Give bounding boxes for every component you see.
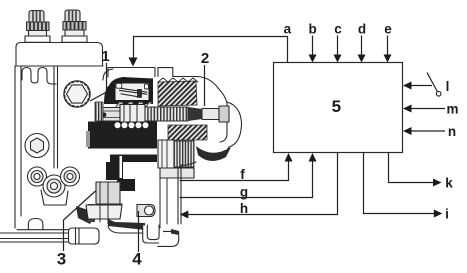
white cutouts in core [86,122,149,178]
svg-text:f: f [240,167,245,182]
arrow a (down, at pump) [129,58,138,67]
bottom arch bump [28,219,43,230]
bearing circle A [28,167,47,186]
wire l [409,85,432,87]
svg-text:2: 2 [201,50,209,67]
right bottom foot [158,231,179,246]
shaft assembly [98,105,229,124]
svg-text:m: m [446,102,458,117]
svg-text:n: n [448,124,456,139]
arrow n [403,127,412,135]
hex plug left [25,134,49,158]
svg-text:1: 1 [101,48,109,65]
svg-text:g: g [240,185,248,200]
wire e [387,36,389,56]
coil hatched top [158,81,197,106]
rear housing outline [178,162,196,224]
bearing circle B [43,175,65,197]
governor cover top [108,68,173,78]
svg-text:h: h [240,201,248,216]
wire f [180,160,289,181]
mid vertical flange lines [54,66,58,168]
label 4 [132,211,142,269]
label 1 [90,48,110,101]
plunger spring striped cylinder [174,141,194,167]
wire d [361,36,363,56]
arrow g (up, into box) [309,153,317,162]
svg-text:4: 4 [132,250,142,269]
svg-text:3: 3 [57,250,66,269]
letter labels [240,22,459,222]
svg-text:5: 5 [332,97,341,116]
fuel pipes bottom left [0,228,99,244]
hex plug nut on face [64,81,90,107]
delivery-valve fitting 2 [62,10,87,42]
U mounting channel [143,225,164,243]
arrowheads [129,55,443,219]
wire b [312,36,314,56]
arrow b [309,55,317,63]
wire a: box to pump [134,37,288,63]
label 2 [201,50,209,106]
drive parts dark blobs lower-middle [76,206,94,224]
zigzag spring washers above coil [158,78,198,82]
plunger barrel right of core [158,140,174,168]
delivery-valve fitting 1 [25,11,50,43]
arrow k (right) [433,179,442,187]
ECU box 5 [274,63,403,153]
solenoid black core mass [88,122,157,149]
arrow d [358,55,366,63]
valve body below [160,168,194,178]
switch contact circle (l) [436,92,441,97]
inner mechanism: governor black housing [104,77,153,107]
wire c [337,36,339,56]
svg-text:e: e [384,22,392,37]
arrow h (left, at pump) [180,211,189,219]
svg-text:b: b [308,22,316,37]
wire k [389,153,435,183]
shim tab row [116,102,153,107]
wire h [187,153,338,215]
bracket under bearings [41,190,68,205]
bulge bottom dark crescent [196,146,231,161]
svg-text:c: c [334,22,342,37]
svg-text:l: l [446,79,450,94]
pump body: face arches [22,68,56,85]
svg-text:i: i [445,207,449,222]
svg-text:d: d [358,22,366,37]
wire m [409,108,445,110]
arrow f (up, into box) [285,153,293,162]
lower dark band and bottom outline [108,219,145,230]
pipe fitting block [69,228,100,244]
screw part (label 4 target) [137,205,155,217]
wire n [409,130,445,132]
wire i [364,153,436,214]
svg-text:a: a [284,22,292,37]
pump body: top fuel-gallery block [16,43,103,67]
arrow m [403,105,412,113]
coil hatched bottom [168,125,207,140]
arrow c [334,55,342,63]
label 3 [57,191,96,269]
lower pump internals left of foot [86,182,122,224]
arrow e [384,55,392,63]
svg-text:k: k [445,176,453,191]
pump body: main face edges [15,66,103,228]
arrow l (left, into box) [403,82,412,90]
switch lever l [427,73,437,92]
wire g [180,160,313,198]
bearing circle C [61,167,80,186]
right bulge [207,102,242,160]
arrow i (right) [434,210,443,218]
actuator housing outline [103,69,227,142]
